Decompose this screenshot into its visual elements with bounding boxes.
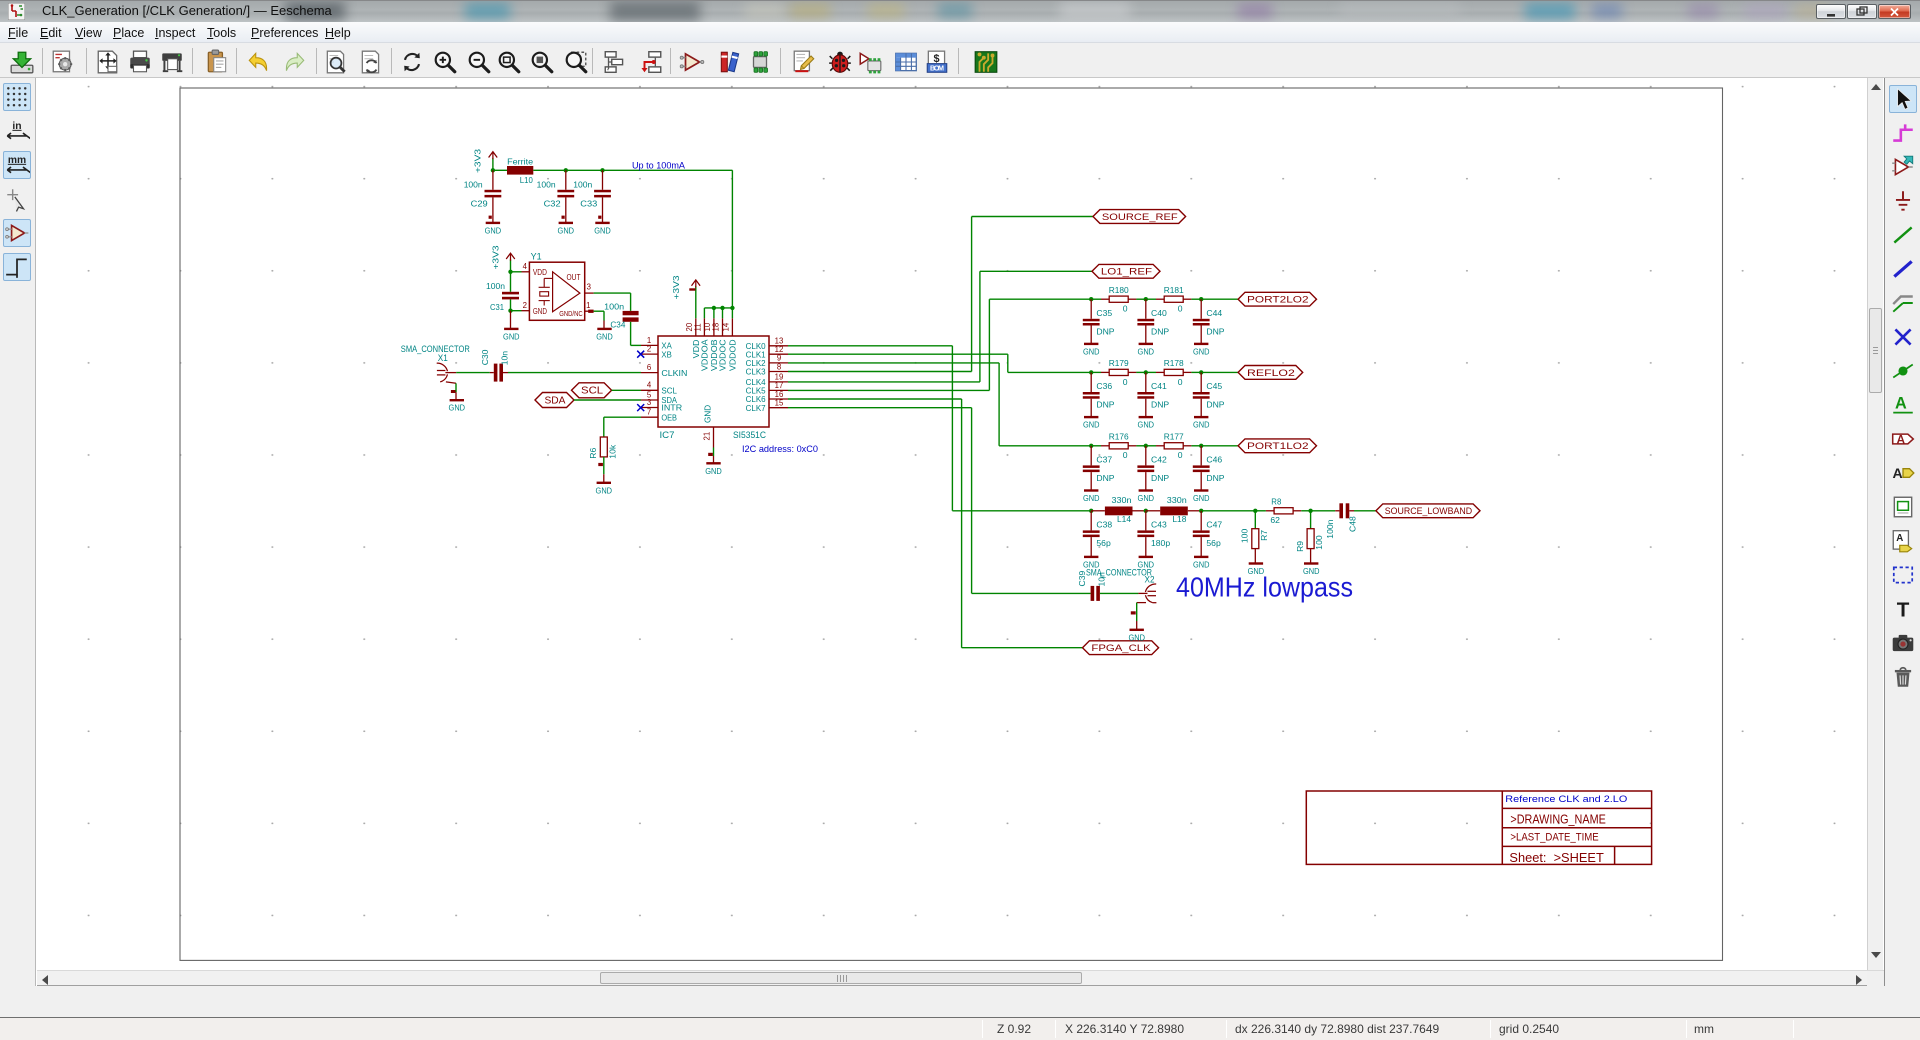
- svg-text:Sheet: >SHEET: Sheet: >SHEET: [1509, 851, 1604, 865]
- wire: [602, 197, 604, 223]
- wire: [1133, 510, 1146, 512]
- svg-text:C47: C47: [1206, 519, 1222, 529]
- capacitor C40: [1137, 319, 1154, 322]
- wire: [1145, 472, 1147, 490]
- svg-text:C44: C44: [1206, 308, 1222, 318]
- wire: [1136, 371, 1146, 373]
- sheet border: [180, 88, 1723, 960]
- svg-text:1: 1: [647, 336, 651, 345]
- svg-text:A: A: [1895, 394, 1907, 412]
- wire: [1200, 511, 1202, 531]
- svg-text:DNP: DNP: [1151, 326, 1169, 336]
- wire: [1091, 445, 1101, 447]
- svg-text:CLK1: CLK1: [746, 350, 766, 359]
- pin 8 CLK3: [769, 371, 788, 373]
- power +3V3: [695, 286, 697, 318]
- svg-text:C32: C32: [544, 198, 561, 208]
- wire: [510, 272, 512, 292]
- svg-text:4: 4: [523, 262, 528, 271]
- svg-text:GND: GND: [1083, 420, 1100, 430]
- wire: [1091, 298, 1101, 300]
- node VDDOC: [720, 306, 724, 310]
- svg-text:DNP: DNP: [1206, 326, 1224, 336]
- wire REFLO2 row: [1008, 371, 1091, 373]
- svg-text:CLK3: CLK3: [746, 368, 766, 377]
- svg-text:GND: GND: [1193, 346, 1210, 356]
- svg-text:DNP: DNP: [1151, 473, 1169, 483]
- wire: [1188, 510, 1201, 512]
- svg-text:10n: 10n: [500, 351, 510, 366]
- wire: [603, 457, 605, 474]
- pin 19 CLK4: [769, 381, 788, 383]
- ground: [1084, 343, 1098, 345]
- svg-text:GND: GND: [596, 331, 613, 341]
- svg-text:C30: C30: [480, 349, 490, 365]
- pin 16 CLK6: [769, 398, 788, 400]
- wire: [565, 170, 567, 190]
- svg-text:100n: 100n: [573, 180, 592, 190]
- ground: [1084, 416, 1098, 418]
- title block: [1306, 791, 1651, 865]
- svg-text:R181: R181: [1164, 285, 1184, 295]
- svg-text:C38: C38: [1096, 519, 1112, 529]
- svg-text:2: 2: [523, 301, 527, 310]
- node L18-out: [1199, 509, 1203, 513]
- svg-text:0: 0: [1123, 377, 1128, 387]
- ground: [1130, 629, 1144, 631]
- svg-text:A: A: [1892, 465, 1902, 481]
- svg-text:100n: 100n: [537, 180, 556, 190]
- ground: [1304, 562, 1318, 564]
- svg-text:SDA: SDA: [545, 395, 566, 406]
- node C44: [1199, 297, 1203, 301]
- svg-text:16: 16: [775, 390, 784, 399]
- node Y1-GND: [508, 309, 512, 313]
- svg-text:100: 100: [1240, 529, 1250, 544]
- pin 4 SCL: [641, 389, 658, 391]
- svg-text:L10: L10: [520, 175, 533, 185]
- wire: [1136, 603, 1138, 621]
- svg-text:0: 0: [1123, 450, 1128, 460]
- svg-text:R180: R180: [1109, 285, 1129, 295]
- svg-text:R8: R8: [1271, 496, 1281, 506]
- wire CLK3: [788, 371, 972, 373]
- svg-text:>LAST_DATE_TIME: >LAST_DATE_TIME: [1510, 832, 1598, 844]
- svg-text:8: 8: [777, 362, 781, 371]
- pin 11 VDDOA: [703, 318, 705, 336]
- svg-text:CLKIN: CLKIN: [661, 369, 687, 378]
- resistor R180: [1101, 298, 1109, 300]
- wire X2 row: [972, 592, 1091, 594]
- capacitor C41: [1137, 392, 1154, 395]
- ground: [1194, 343, 1208, 345]
- wire: [565, 197, 567, 223]
- wire: [510, 311, 512, 329]
- node C36: [1089, 370, 1093, 374]
- svg-text:C45: C45: [1206, 381, 1222, 391]
- wire: [1201, 371, 1238, 373]
- svg-text:330n: 330n: [1167, 495, 1187, 505]
- wire SOURCE_REF: [972, 216, 1093, 218]
- wire: [1200, 472, 1202, 490]
- svg-text:SI5351C: SI5351C: [733, 430, 766, 440]
- wire: [594, 292, 631, 294]
- node C37: [1089, 444, 1093, 448]
- wire: [1145, 511, 1147, 531]
- svg-text:A: A: [1896, 533, 1903, 544]
- capacitor C43: [1137, 530, 1154, 533]
- svg-text:GND: GND: [533, 307, 547, 316]
- node C42: [1144, 444, 1148, 448]
- resistor R8: [1266, 510, 1274, 512]
- ground: [559, 222, 573, 224]
- svg-text:18: 18: [712, 323, 721, 332]
- wire: [603, 321, 605, 329]
- wire: [1146, 445, 1156, 447]
- wire: [1136, 298, 1146, 300]
- resistor R6: [600, 437, 607, 457]
- wire: [1254, 511, 1256, 529]
- svg-text:VDDOA: VDDOA: [701, 339, 710, 371]
- pin 12 CLK1: [769, 353, 788, 355]
- capacitor C33: [594, 190, 611, 193]
- wire: [1090, 446, 1092, 466]
- svg-text:0: 0: [1123, 304, 1128, 314]
- ground: [597, 328, 611, 330]
- ground: [1139, 489, 1153, 491]
- hierarchical label SOURCE_REF: [1093, 210, 1186, 224]
- svg-text:X1: X1: [438, 353, 448, 363]
- svg-text:SMA_CONNECTOR: SMA_CONNECTOR: [401, 344, 470, 354]
- svg-text:C42: C42: [1151, 454, 1167, 464]
- pin 15 CLK7: [769, 407, 788, 409]
- power +3V3: [510, 259, 512, 271]
- svg-text:180p: 180p: [1151, 538, 1170, 548]
- wire: [1146, 298, 1156, 300]
- svg-text:A: A: [1897, 432, 1906, 446]
- capacitor C30: [494, 364, 498, 382]
- svg-text:1: 1: [586, 301, 590, 310]
- svg-text:12: 12: [775, 345, 784, 354]
- IC U-IC7 SI5351C: [641, 318, 788, 447]
- svg-text:R177: R177: [1164, 431, 1184, 441]
- wire: [1146, 510, 1160, 512]
- svg-text:SOURCE_LOWBAND: SOURCE_LOWBAND: [1385, 506, 1472, 517]
- inductor L14: [1105, 507, 1133, 516]
- svg-text:GND: GND: [1193, 559, 1210, 569]
- svg-text:R179: R179: [1109, 358, 1129, 368]
- svg-text:L18: L18: [1172, 514, 1186, 524]
- resistor R9: [1307, 529, 1314, 549]
- ground: [1139, 416, 1153, 418]
- ground: [1194, 556, 1208, 558]
- wire: [1090, 472, 1092, 490]
- svg-text:>DRAWING_NAME: >DRAWING_NAME: [1510, 812, 1605, 826]
- svg-text:100n: 100n: [464, 180, 483, 190]
- wire: [603, 474, 605, 483]
- svg-text:GND: GND: [703, 405, 712, 423]
- svg-text:IC7: IC7: [660, 430, 675, 440]
- pin 6 CLKIN: [641, 372, 658, 374]
- wire: [1091, 510, 1105, 512]
- svg-text:XA: XA: [661, 342, 672, 351]
- capacitor C44: [1193, 319, 1210, 322]
- capacitor C39: [1091, 586, 1095, 601]
- svg-text:C46: C46: [1206, 454, 1222, 464]
- wire: [1146, 371, 1156, 373]
- svg-text:VDD: VDD: [533, 268, 547, 277]
- wire: [1090, 399, 1092, 417]
- capacitor C37: [1083, 465, 1100, 468]
- svg-text:CLK7: CLK7: [746, 404, 766, 413]
- svg-text:15: 15: [775, 399, 784, 408]
- svg-text:SCL: SCL: [661, 387, 677, 396]
- svg-text:GND: GND: [1138, 493, 1155, 503]
- capacitor C38: [1083, 530, 1100, 533]
- wire: [704, 307, 732, 309]
- wire: [631, 344, 641, 346]
- capacitor C36: [1083, 392, 1100, 395]
- svg-text:GND: GND: [1138, 346, 1155, 356]
- svg-text:DNP: DNP: [1096, 473, 1114, 483]
- svg-text:Reference CLK and 2.LO: Reference CLK and 2.LO: [1505, 794, 1627, 805]
- wire: [511, 310, 522, 312]
- wire: [1200, 326, 1202, 344]
- wire: [1200, 299, 1202, 319]
- svg-text:L14: L14: [1117, 514, 1131, 524]
- ground: [486, 222, 500, 224]
- node Y1-VDD: [508, 270, 512, 274]
- wire: [1254, 549, 1256, 564]
- svg-text:DNP: DNP: [1206, 473, 1224, 483]
- svg-text:Y1: Y1: [531, 252, 542, 262]
- pin 18 VDDOC: [722, 318, 724, 336]
- svg-text:DNP: DNP: [1206, 400, 1224, 410]
- wire: [492, 170, 494, 190]
- svg-text:T: T: [1897, 599, 1910, 622]
- wire CLK2: [788, 362, 999, 364]
- svg-text:Ferrite: Ferrite: [507, 156, 533, 166]
- node C41: [1144, 370, 1148, 374]
- svg-text:C33: C33: [580, 198, 597, 208]
- svg-text:R7: R7: [1259, 530, 1269, 541]
- svg-text:GND: GND: [1193, 493, 1210, 503]
- svg-text:0: 0: [1178, 450, 1183, 460]
- svg-text:FPGA_CLK: FPGA_CLK: [1091, 643, 1151, 654]
- svg-text:2: 2: [647, 345, 651, 354]
- svg-text:+3V3: +3V3: [490, 245, 500, 269]
- svg-text:INTR: INTR: [661, 404, 682, 413]
- svg-text:GND: GND: [503, 331, 520, 341]
- svg-text:14: 14: [721, 322, 730, 331]
- wire: [1145, 299, 1147, 319]
- pin 1 XA: [641, 344, 658, 346]
- node rail-C29: [491, 168, 495, 172]
- ground: [504, 328, 518, 330]
- wire: [492, 197, 494, 223]
- svg-text:0: 0: [1178, 377, 1183, 387]
- wire: [1200, 537, 1202, 557]
- no-connect INTR: [637, 404, 644, 411]
- wire: [731, 308, 733, 318]
- wire: [455, 392, 457, 400]
- wire: [630, 293, 632, 311]
- resistor R177: [1156, 445, 1164, 447]
- wire: [456, 372, 490, 374]
- power +3V3: [492, 158, 494, 170]
- wire PORT2LO2 row: [989, 298, 1091, 300]
- svg-text:SMA_CONNECTOR: SMA_CONNECTOR: [1086, 568, 1152, 578]
- capacitor C31: [502, 292, 519, 295]
- node R7-top: [1253, 509, 1257, 513]
- inductor L18: [1160, 507, 1188, 516]
- capacitor C47: [1193, 530, 1210, 533]
- wire: [1090, 537, 1092, 557]
- wire: [1145, 446, 1147, 466]
- wire: [533, 169, 732, 171]
- svg-text:XB: XB: [661, 350, 672, 359]
- global label SCL: [572, 383, 612, 398]
- connector X2 SMA: [1086, 568, 1156, 603]
- svg-text:BOM: BOM: [930, 66, 944, 73]
- node C46: [1199, 444, 1203, 448]
- wire: [1090, 326, 1092, 344]
- wire: [603, 417, 605, 437]
- svg-text:+3V3: +3V3: [671, 275, 681, 299]
- node L14-in: [1089, 509, 1093, 513]
- wire: [493, 169, 507, 171]
- ground: [1139, 556, 1153, 558]
- oscillator Y1: [522, 252, 594, 321]
- node VDDOB: [712, 306, 716, 310]
- wire: [508, 372, 641, 374]
- svg-text:C35: C35: [1096, 308, 1112, 318]
- hierarchical label SOURCE_LOWBAND: [1376, 504, 1480, 518]
- wire PORT1LO2 row: [999, 445, 1091, 447]
- svg-text:GND: GND: [485, 225, 502, 235]
- hierarchical label PORT2LO2: [1238, 292, 1316, 306]
- svg-text:VDDOC: VDDOC: [719, 339, 728, 371]
- wire: [1090, 372, 1092, 392]
- resistor R181: [1156, 298, 1164, 300]
- svg-text:PORT1LO2: PORT1LO2: [1247, 441, 1309, 452]
- svg-text:GND/NC: GND/NC: [559, 311, 583, 318]
- hierarchical label REFLO2: [1238, 366, 1303, 380]
- wire: [1191, 371, 1201, 373]
- wire: [455, 383, 457, 392]
- node R9-top: [1308, 509, 1312, 513]
- hierarchical label PORT1LO2: [1238, 439, 1316, 453]
- svg-text:+3V3: +3V3: [473, 149, 483, 173]
- wire: [731, 170, 733, 308]
- svg-text:SOURCE_REF: SOURCE_REF: [1102, 212, 1178, 223]
- node rail-C32: [564, 168, 568, 172]
- wire: [1310, 549, 1312, 564]
- resistor R179: [1101, 371, 1109, 373]
- svg-text:LO1_REF: LO1_REF: [1101, 267, 1152, 278]
- wire: [511, 271, 522, 273]
- wire: [1201, 445, 1238, 447]
- wire: [630, 322, 632, 346]
- node C40: [1144, 297, 1148, 301]
- node VDDOD: [730, 306, 734, 310]
- wire: [713, 456, 715, 463]
- svg-text:PORT2LO2: PORT2LO2: [1247, 295, 1309, 306]
- svg-text:C37: C37: [1096, 454, 1112, 464]
- svg-text:GND: GND: [594, 225, 611, 235]
- svg-text:100n: 100n: [604, 302, 624, 312]
- svg-text:GND: GND: [1138, 420, 1155, 430]
- svg-text:11: 11: [693, 323, 702, 331]
- hierarchical label LO1_REF: [1092, 264, 1160, 278]
- wire: [1200, 446, 1202, 466]
- pin 2 XB: [641, 353, 658, 355]
- svg-text:GND: GND: [1193, 420, 1210, 430]
- ground: [1249, 562, 1263, 564]
- wire: [713, 308, 715, 318]
- node C45: [1199, 370, 1203, 374]
- svg-text:mm: mm: [8, 155, 26, 166]
- wire: [1310, 511, 1312, 529]
- svg-text:in: in: [12, 121, 21, 132]
- svg-text:C29: C29: [471, 198, 488, 208]
- svg-text:R176: R176: [1109, 431, 1129, 441]
- capacitor C45: [1193, 392, 1210, 395]
- resistor R176: [1101, 445, 1109, 447]
- svg-text:C43: C43: [1151, 519, 1167, 529]
- svg-text:56p: 56p: [1206, 538, 1221, 548]
- svg-text:X2: X2: [1145, 575, 1155, 585]
- ground: [597, 482, 611, 484]
- svg-text:C48: C48: [1348, 516, 1358, 532]
- svg-text:C36: C36: [1096, 381, 1112, 391]
- svg-text:Up to 100mA: Up to 100mA: [632, 160, 686, 171]
- no-connect XB: [637, 351, 644, 358]
- wire CLK7: [788, 407, 972, 409]
- wire: [574, 399, 641, 401]
- pin 13 CLK0: [769, 345, 788, 347]
- svg-text:100n: 100n: [1325, 519, 1335, 538]
- capacitor C34: [623, 311, 639, 315]
- node L14-L18: [1144, 509, 1148, 513]
- ground: [1194, 416, 1208, 418]
- pin 7 OEB: [641, 416, 658, 418]
- wire: [1136, 445, 1146, 447]
- connector X1 SMA: [401, 344, 470, 384]
- wire: [1354, 510, 1376, 512]
- svg-text:0: 0: [1178, 304, 1183, 314]
- svg-text:7: 7: [647, 408, 651, 417]
- wire: [612, 389, 641, 391]
- svg-text:6: 6: [647, 363, 651, 372]
- svg-text:R6: R6: [588, 447, 598, 458]
- wire: [1100, 592, 1139, 594]
- svg-text:C31: C31: [490, 302, 504, 312]
- svg-text:SCL: SCL: [581, 386, 603, 397]
- wire CLK1: [788, 353, 1008, 355]
- wire LO1_REF: [980, 270, 1092, 272]
- pin 20 VDD: [695, 318, 697, 336]
- wire: [1145, 537, 1147, 557]
- hierarchical label FPGA_CLK: [1083, 641, 1159, 655]
- wire: [713, 448, 715, 457]
- svg-text:C40: C40: [1151, 308, 1167, 318]
- wire: [722, 308, 724, 318]
- resistor R7: [1252, 529, 1259, 549]
- svg-text:R178: R178: [1164, 358, 1184, 368]
- svg-text:62: 62: [1270, 515, 1280, 525]
- svg-text:R9: R9: [1295, 541, 1305, 552]
